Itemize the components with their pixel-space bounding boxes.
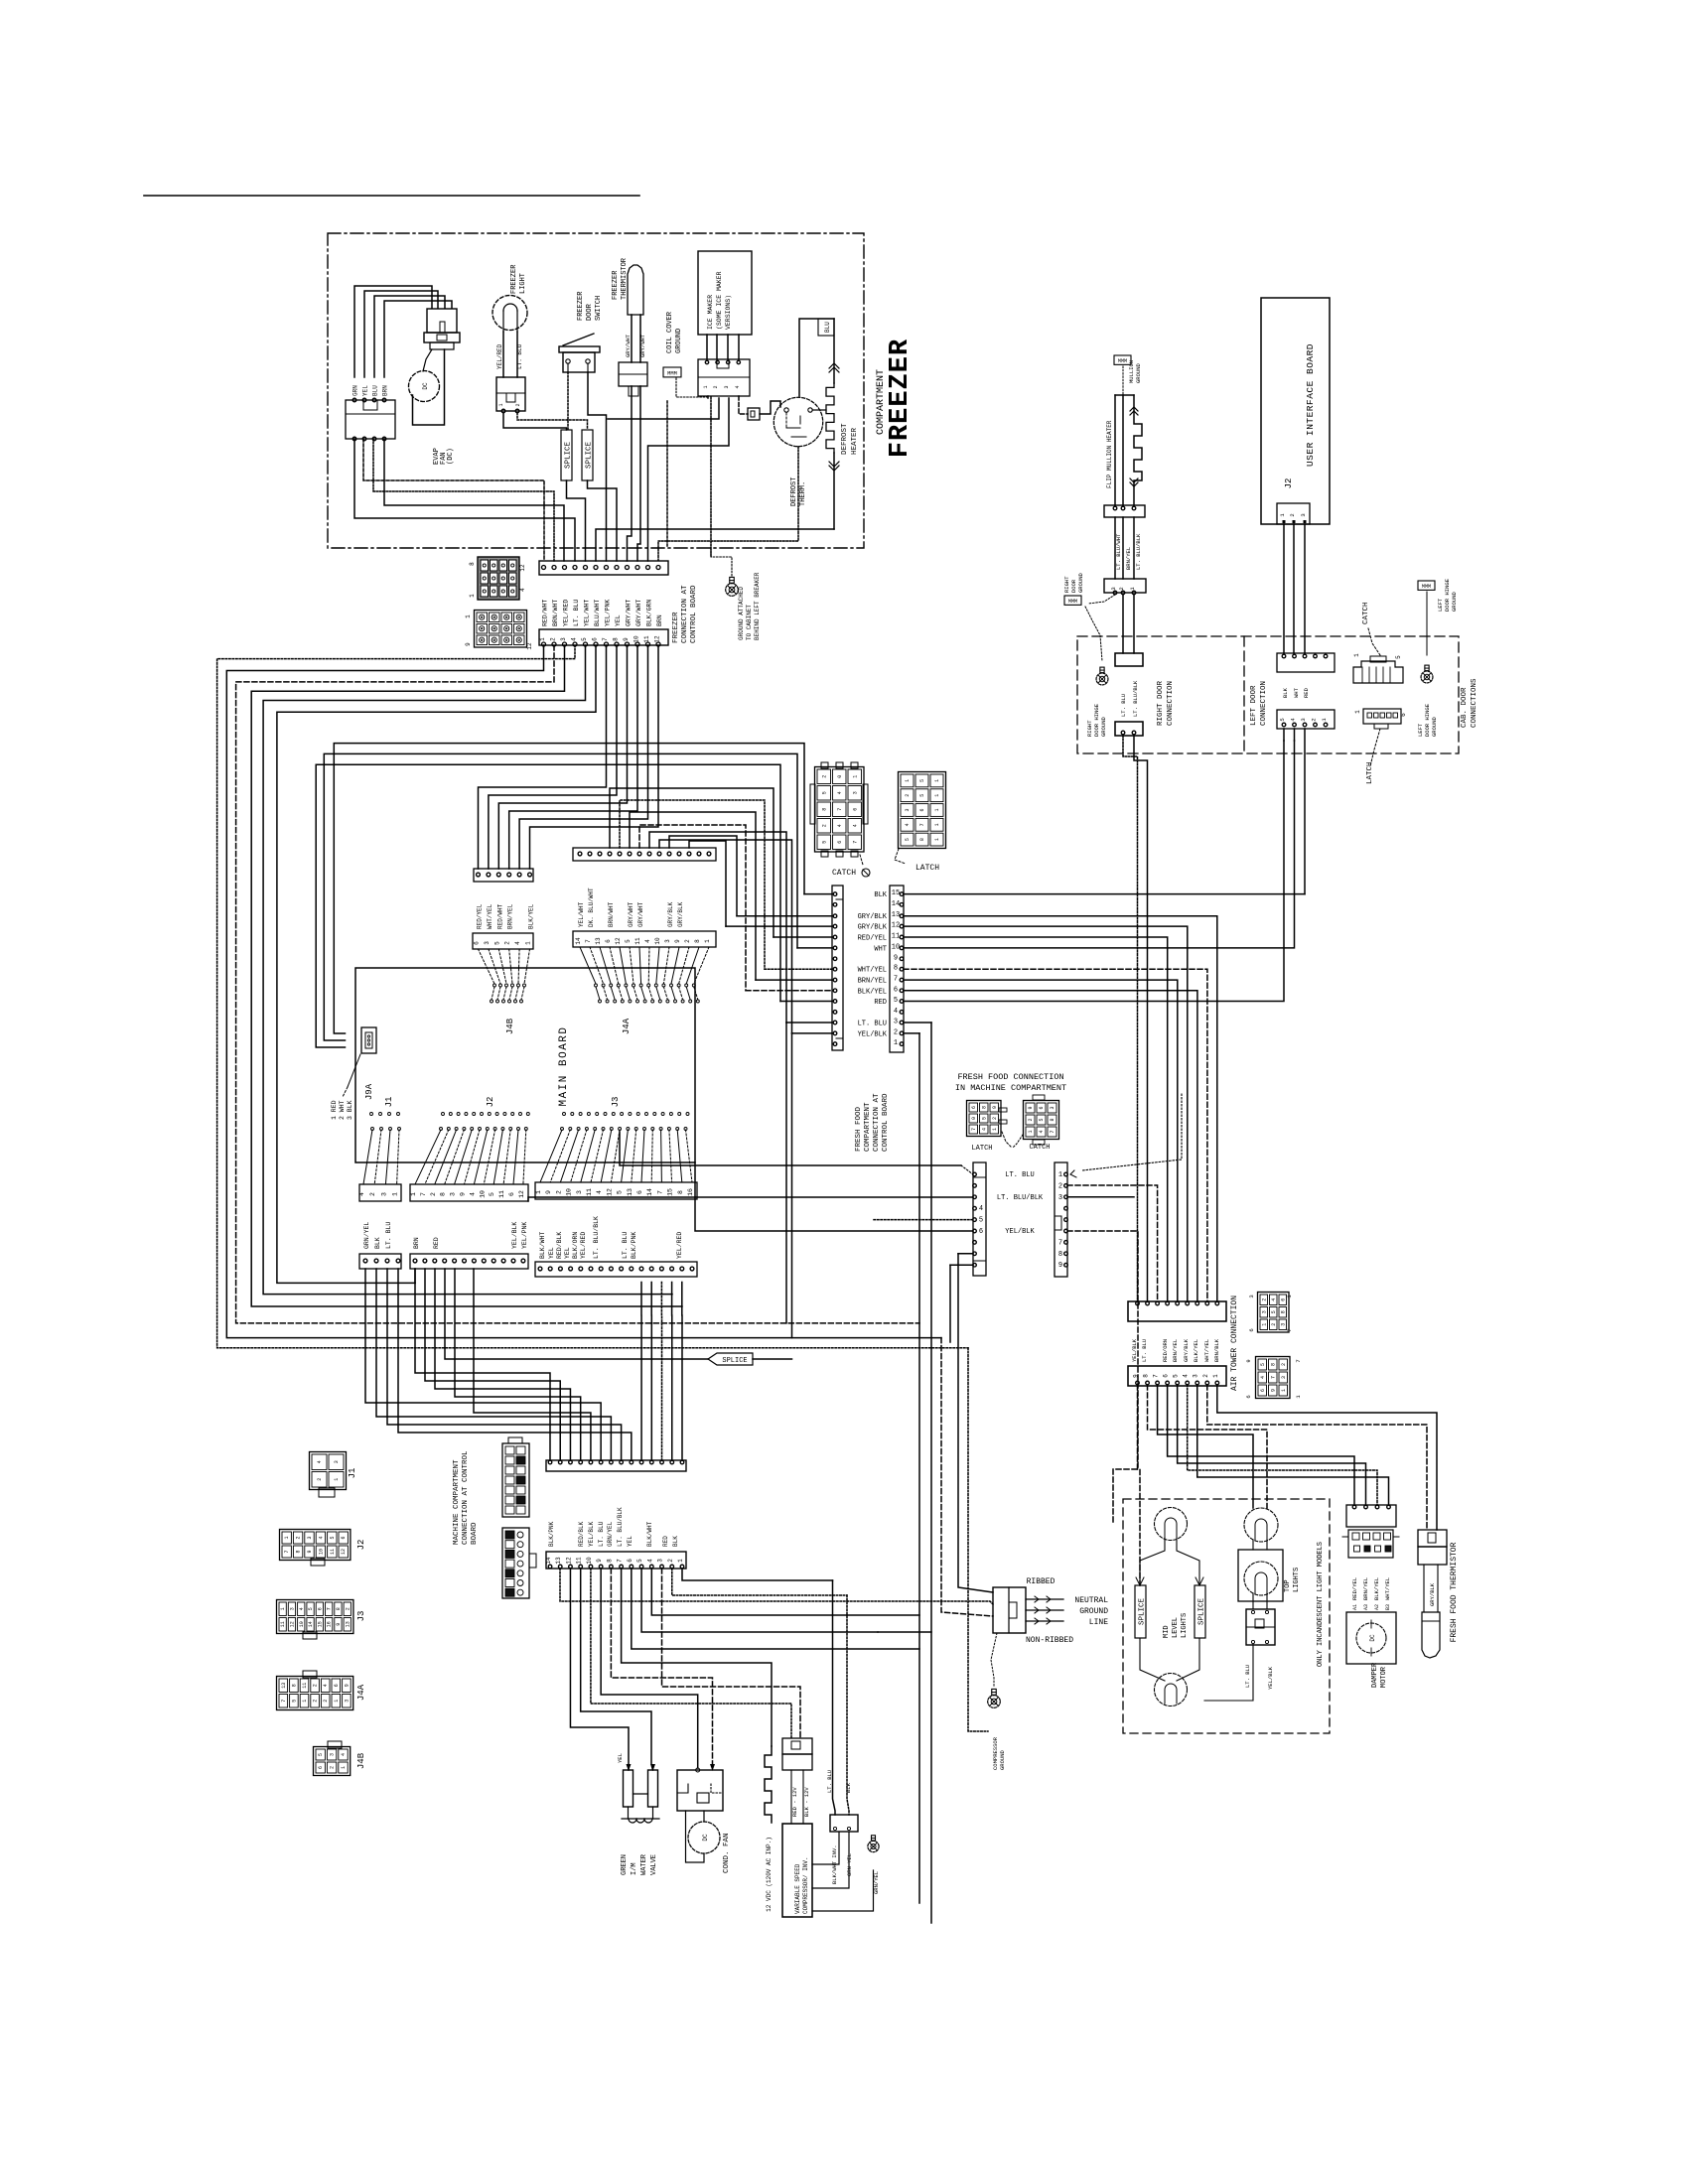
12-pin connector rear view (hatched) — [478, 557, 519, 600]
svg-text:15: 15 — [667, 1188, 674, 1196]
svg-text:4: 4 — [646, 1559, 653, 1563]
svg-text:3: 3 — [1248, 1295, 1255, 1297]
svg-text:YEL/BLK: YEL/BLK — [1267, 1666, 1274, 1690]
svg-text:9: 9 — [307, 1550, 313, 1553]
svg-text:9: 9 — [1245, 1359, 1252, 1362]
svg-text:1: 1 — [934, 779, 940, 782]
svg-text:LT. BLU/BLK: LT. BLU/BLK — [997, 1194, 1044, 1202]
svg-text:SPLICE: SPLICE — [565, 442, 573, 470]
svg-text:5: 5 — [617, 1190, 624, 1194]
fresh food compartment connector strip (numbered) — [890, 886, 904, 1052]
svg-text:BRN/YEL: BRN/YEL — [1125, 547, 1132, 570]
svg-text:YEL/RED: YEL/RED — [676, 1232, 683, 1259]
wires right door into door harness — [1123, 736, 1138, 1301]
svg-text:CATCH: CATCH — [1362, 602, 1370, 624]
svg-text:SPLICE: SPLICE — [1198, 1598, 1206, 1626]
svg-text:BLK: BLK — [374, 1237, 381, 1249]
svg-text:8: 8 — [894, 965, 898, 973]
svg-text:12: 12 — [654, 635, 661, 643]
svg-text:IN MACHINE COMPARTMENT: IN MACHINE COMPARTMENT — [955, 1083, 1066, 1093]
svg-text:5: 5 — [493, 941, 500, 945]
svg-text:7: 7 — [1270, 1376, 1276, 1379]
svg-text:4: 4 — [571, 637, 578, 641]
svg-text:BLK/PNK: BLK/PNK — [548, 1521, 555, 1547]
svg-text:7: 7 — [656, 1190, 663, 1194]
svg-text:DAMPER: DAMPER — [1371, 1662, 1379, 1688]
svg-text:1: 1 — [1212, 1374, 1219, 1378]
svg-text:GROUND: GROUND — [1077, 572, 1084, 593]
svg-text:YEL: YEL — [615, 614, 622, 626]
svg-text:3: 3 — [450, 1192, 457, 1196]
svg-text:9: 9 — [465, 642, 472, 646]
svg-text:3: 3 — [1110, 587, 1117, 590]
svg-text:FRESH FOOD: FRESH FOOD — [855, 1106, 863, 1152]
svg-text:2: 2 — [345, 1607, 351, 1610]
wires freezer strip pins 7-12 down to J4B connector — [479, 645, 607, 869]
svg-text:5: 5 — [636, 1559, 643, 1563]
damper motor connector strip — [1346, 1505, 1396, 1527]
svg-text:6: 6 — [627, 1559, 633, 1563]
svg-text:11: 11 — [892, 933, 900, 941]
wires into fresh food strip left (machine compartment) — [620, 1132, 961, 1165]
svg-text:BRN/YEL: BRN/YEL — [1362, 1577, 1369, 1600]
svg-text:9: 9 — [344, 1684, 350, 1687]
wires from door switch to splices — [567, 372, 569, 430]
svg-text:GROUND: GROUND — [1451, 591, 1458, 612]
svg-text:6: 6 — [979, 1228, 983, 1236]
svg-text:4: 4 — [323, 1684, 329, 1687]
svg-text:LIGHT: LIGHT — [519, 273, 527, 294]
svg-text:5: 5 — [919, 779, 925, 782]
connector J9A on main board — [361, 1027, 376, 1053]
svg-text:1: 1 — [677, 1559, 684, 1563]
svg-text:6: 6 — [1163, 1374, 1170, 1378]
svg-text:GRN YEL: GRN YEL — [846, 1853, 853, 1876]
svg-text:LEVEL: LEVEL — [1172, 1617, 1180, 1638]
svg-text:7: 7 — [617, 1559, 624, 1563]
svg-text:5: 5 — [979, 1217, 983, 1225]
evap fan motor (DC) — [409, 371, 440, 402]
damper motor — [1346, 1612, 1396, 1664]
svg-text:1: 1 — [334, 1700, 340, 1703]
wires rows 2 and 3 to long verticals — [904, 1022, 931, 1024]
svg-text:GRY/BLK: GRY/BLK — [667, 901, 674, 927]
svg-text:BLK/GRN: BLK/GRN — [646, 600, 653, 626]
svg-text:3: 3 — [576, 1190, 583, 1194]
right door lower connector — [1115, 722, 1143, 736]
J4B fanout to board pads — [479, 949, 495, 984]
svg-text:RED/BLK: RED/BLK — [556, 1232, 563, 1259]
ice maker leads — [706, 335, 708, 359]
svg-text:BLU: BLU — [824, 322, 831, 333]
svg-text:2: 2 — [330, 1766, 336, 1769]
svg-text:3: 3 — [905, 808, 911, 811]
fresh food thermistor connector — [1418, 1530, 1447, 1547]
svg-text:1: 1 — [1281, 1389, 1287, 1392]
svg-text:J2: J2 — [486, 1097, 495, 1108]
svg-text:5: 5 — [1260, 1363, 1266, 1366]
svg-text:8: 8 — [1050, 1118, 1055, 1121]
thermistor connector — [619, 362, 647, 386]
svg-text:MID: MID — [1163, 1625, 1171, 1638]
svg-text:J2: J2 — [1284, 478, 1294, 489]
svg-text:4: 4 — [981, 1128, 987, 1131]
svg-text:LEFT: LEFT — [1437, 598, 1444, 612]
svg-text:10: 10 — [633, 635, 640, 643]
svg-text:13: 13 — [892, 911, 900, 919]
svg-text:CATCH: CATCH — [832, 869, 856, 878]
svg-text:3: 3 — [724, 385, 730, 388]
svg-text:4: 4 — [469, 1192, 476, 1196]
svg-text:3: 3 — [289, 1607, 295, 1610]
svg-text:BLK/WHT INV.: BLK/WHT INV. — [831, 1844, 838, 1884]
svg-text:1: 1 — [280, 1607, 286, 1610]
svg-text:9: 9 — [894, 954, 898, 962]
wire bundle freezer strip down the left side (nested L wires) — [217, 645, 968, 1348]
water valve coil — [622, 1818, 659, 1820]
svg-text:6: 6 — [894, 986, 898, 994]
svg-text:DEFROST: DEFROST — [790, 478, 798, 506]
defrost thermostat — [774, 397, 822, 446]
svg-text:11: 11 — [280, 1621, 286, 1627]
top light bulb 2 — [1244, 1562, 1278, 1595]
svg-text:FRESH FOOD CONNECTION: FRESH FOOD CONNECTION — [957, 1072, 1063, 1082]
svg-text:11: 11 — [576, 1557, 583, 1565]
svg-text:2: 2 — [713, 385, 719, 388]
svg-text:7: 7 — [284, 1550, 290, 1553]
svg-text:5: 5 — [291, 1700, 297, 1703]
svg-text:4: 4 — [1271, 1298, 1277, 1301]
svg-text:RED: RED — [433, 1237, 440, 1249]
svg-text:6: 6 — [508, 1192, 515, 1196]
svg-text:MULLION: MULLION — [1128, 360, 1135, 383]
svg-text:DK. BLU/WHT: DK. BLU/WHT — [588, 887, 595, 927]
defrost heater resistor — [833, 319, 835, 383]
right door connector (cab side) — [1115, 653, 1143, 666]
freezer connection at control board - upper strip — [539, 561, 668, 575]
wires ice maker connector down — [710, 397, 712, 556]
svg-text:4: 4 — [644, 939, 651, 943]
svg-text:3: 3 — [852, 791, 858, 794]
svg-text:1: 1 — [1058, 1171, 1062, 1179]
svg-text:COIL COVER: COIL COVER — [666, 311, 674, 353]
svg-text:1: 1 — [539, 637, 546, 641]
svg-text:8: 8 — [981, 1106, 987, 1109]
svg-text:CONNECTIONS: CONNECTIONS — [1471, 678, 1478, 728]
svg-text:VARIABLE SPEED: VARIABLE SPEED — [794, 1863, 801, 1914]
thermal fuse — [748, 408, 760, 420]
svg-text:5: 5 — [919, 794, 925, 797]
svg-text:LIGHTS: LIGHTS — [1293, 1568, 1301, 1592]
svg-text:3: 3 — [380, 1192, 387, 1196]
svg-text:10: 10 — [318, 1549, 324, 1555]
svg-text:YEL/WHT: YEL/WHT — [578, 901, 585, 927]
J1 board pads and fanout — [370, 1113, 373, 1116]
svg-text:CONTROL BOARD: CONTROL BOARD — [690, 585, 698, 643]
svg-text:YEL/BLK: YEL/BLK — [858, 1030, 888, 1038]
9-pos connector front view (catch) — [1024, 1101, 1059, 1140]
svg-text:LT. BLU/BLK: LT. BLU/BLK — [617, 1507, 624, 1547]
svg-text:5: 5 — [581, 637, 588, 641]
svg-text:J4A: J4A — [622, 1018, 632, 1034]
svg-text:J4A: J4A — [356, 1684, 366, 1701]
svg-text:2: 2 — [894, 1028, 898, 1036]
svg-text:BRN: BRN — [382, 385, 389, 396]
svg-text:7: 7 — [585, 939, 592, 943]
top lights connector — [1246, 1609, 1275, 1645]
svg-text:16: 16 — [327, 1621, 333, 1627]
svg-text:BRN/YEL: BRN/YEL — [858, 978, 887, 986]
user interface board connector J2 — [1277, 503, 1310, 524]
svg-text:5: 5 — [330, 1536, 336, 1539]
wires J4A connector up to fresh food row feeders — [610, 788, 774, 937]
svg-text:RED/ORN: RED/ORN — [1162, 1339, 1169, 1362]
svg-text:RIGHT: RIGHT — [1063, 576, 1070, 593]
wires air tower to top lights — [1158, 1385, 1253, 1508]
9-pos connector rear view (latch) — [967, 1101, 1002, 1137]
svg-text:1: 1 — [852, 775, 858, 778]
svg-text:LT. BLU: LT. BLU — [858, 1021, 887, 1028]
svg-text:0: 0 — [837, 775, 843, 778]
svg-text:J4B: J4B — [356, 1752, 366, 1769]
arrow wires LT. BLU / BLK into 2-pin connector — [833, 1580, 836, 1815]
svg-text:1: 1 — [1261, 1323, 1267, 1326]
wires splices to strip — [567, 480, 586, 561]
svg-text:8: 8 — [613, 637, 620, 641]
svg-text:10: 10 — [566, 1188, 573, 1196]
svg-text:4: 4 — [519, 588, 526, 592]
svg-text:10: 10 — [654, 937, 661, 945]
svg-text:12: 12 — [526, 642, 533, 650]
svg-text:2 WHT: 2 WHT — [339, 1100, 346, 1120]
wire ice maker connector to thermal fuse — [739, 396, 748, 414]
svg-text:GROUND: GROUND — [1100, 716, 1107, 737]
svg-text:RIGHT: RIGHT — [1086, 720, 1093, 737]
svg-text:7: 7 — [1286, 1328, 1293, 1331]
svg-text:1: 1 — [934, 794, 940, 797]
freezer thermistor bulb — [628, 265, 643, 315]
svg-text:GRY/BLK: GRY/BLK — [677, 901, 684, 927]
svg-text:11: 11 — [302, 1683, 308, 1689]
svg-text:4: 4 — [837, 824, 843, 827]
svg-text:10: 10 — [892, 943, 900, 951]
wire air tower to fresh food thermistor — [1217, 1385, 1437, 1530]
svg-text:AIR TOWER CONNECTION: AIR TOWER CONNECTION — [1230, 1296, 1239, 1391]
svg-text:3: 3 — [1281, 1376, 1287, 1379]
svg-text:6: 6 — [1039, 1106, 1045, 1109]
J4A fanout to board pads — [580, 947, 596, 984]
freezer light leads — [502, 332, 504, 377]
svg-text:LATCH: LATCH — [915, 864, 939, 873]
svg-text:VALVE: VALVE — [650, 1854, 658, 1875]
svg-text:CATCH: CATCH — [1029, 1144, 1050, 1152]
svg-text:14: 14 — [646, 1188, 653, 1196]
svg-text:FREEZER: FREEZER — [672, 612, 680, 643]
svg-text:16: 16 — [687, 1188, 694, 1196]
machine compartment connector rear view (tall) — [502, 1443, 529, 1517]
damper motor plug rear view — [1348, 1530, 1393, 1558]
svg-text:BLU: BLU — [372, 385, 379, 396]
thermistor wires GRY/BLK — [1423, 1565, 1425, 1612]
svg-text:7: 7 — [1058, 1239, 1062, 1247]
svg-text:BLK: BLK — [874, 891, 887, 899]
svg-text:14: 14 — [575, 937, 582, 945]
svg-text:5: 5 — [625, 939, 632, 943]
splice (right) — [582, 430, 593, 480]
wire air tower to mid level lights — [1138, 1385, 1141, 1585]
svg-text:MOTOR: MOTOR — [1380, 1666, 1388, 1688]
svg-text:3: 3 — [664, 939, 671, 943]
ground screw (compressor ground) — [988, 1696, 1001, 1708]
splice (machine harness) — [708, 1353, 753, 1365]
svg-text:8: 8 — [440, 1192, 447, 1196]
svg-text:(DC): (DC) — [447, 448, 455, 465]
svg-text:8: 8 — [1143, 1374, 1150, 1378]
svg-text:CONNECTION AT CONTROL: CONNECTION AT CONTROL — [462, 1450, 470, 1545]
svg-text:DC: DC — [702, 1834, 709, 1842]
svg-text:BLK/WHT: BLK/WHT — [646, 1521, 653, 1547]
svg-text:BOARD: BOARD — [471, 1522, 479, 1545]
svg-text:MMM: MMM — [1068, 599, 1077, 605]
top lights return wire — [1204, 1644, 1253, 1701]
svg-text:YEL: YEL — [627, 1536, 633, 1547]
svg-text:1: 1 — [410, 1192, 417, 1196]
svg-text:2: 2 — [515, 403, 521, 406]
svg-text:11: 11 — [634, 937, 641, 945]
svg-text:4: 4 — [1183, 1374, 1190, 1378]
mullion ground — [1114, 355, 1131, 364]
connector J4B face view — [314, 1747, 351, 1776]
svg-text:FREEZER: FREEZER — [577, 291, 585, 321]
wire thermostat right contact to heater — [812, 409, 826, 411]
connector J1 numbered strip — [359, 1184, 401, 1201]
svg-text:3: 3 — [560, 637, 567, 641]
svg-text:1: 1 — [1279, 513, 1286, 517]
svg-text:YEL: YEL — [617, 1753, 624, 1763]
svg-text:3: 3 — [657, 1559, 664, 1563]
svg-text:7: 7 — [602, 637, 609, 641]
svg-text:2: 2 — [667, 1559, 674, 1563]
left door connector (top) — [1277, 653, 1335, 672]
svg-text:J3: J3 — [356, 1611, 366, 1622]
svg-text:7: 7 — [327, 1607, 333, 1610]
svg-text:1: 1 — [334, 1478, 340, 1481]
svg-text:2: 2 — [296, 1536, 302, 1539]
cab door connections boundary (dashed box) — [1077, 636, 1459, 753]
svg-text:BRN/BLK: BRN/BLK — [1213, 1338, 1220, 1362]
long feeders for rows 3 and 2 labels — [649, 832, 786, 1023]
svg-text:5: 5 — [1271, 1310, 1277, 1313]
svg-text:VERSIONS): VERSIONS) — [725, 295, 732, 330]
door catch connector — [1353, 661, 1403, 683]
svg-text:12: 12 — [518, 1190, 525, 1198]
svg-text:COMPRESSOR/ INV.: COMPRESSOR/ INV. — [802, 1856, 809, 1914]
svg-text:3: 3 — [344, 1700, 350, 1703]
svg-text:BLK/WHT: BLK/WHT — [539, 1232, 546, 1259]
main board outline — [355, 968, 695, 1162]
flip mullion heater — [1114, 395, 1116, 505]
svg-text:9: 9 — [336, 1623, 342, 1626]
svg-text:4: 4 — [341, 1753, 347, 1756]
compressor ground wire GRN/YEL with lug — [868, 1841, 879, 1851]
svg-text:J2: J2 — [356, 1540, 366, 1551]
connector J4A numbered strip — [573, 931, 716, 947]
svg-text:13: 13 — [345, 1621, 351, 1627]
svg-text:LT. BLU/WHT: LT. BLU/WHT — [1115, 533, 1122, 570]
door latch connector — [1363, 709, 1401, 724]
svg-text:1: 1 — [992, 1128, 998, 1131]
svg-text:7: 7 — [837, 808, 843, 811]
condenser fan motor — [688, 1822, 720, 1853]
svg-text:YEL/BLK: YEL/BLK — [1131, 1338, 1138, 1362]
svg-text:1: 1 — [704, 939, 711, 943]
svg-text:BLK/YEL: BLK/YEL — [528, 903, 535, 929]
connector J4A face view — [277, 1677, 353, 1710]
svg-text:YEL/PNK: YEL/PNK — [521, 1222, 528, 1249]
svg-text:WHT/YEL: WHT/YEL — [487, 903, 493, 929]
freezer light bulb — [492, 296, 527, 331]
svg-text:GROUND: GROUND — [1079, 1607, 1108, 1616]
svg-text:BLK/PNK: BLK/PNK — [631, 1232, 637, 1259]
svg-text:1: 1 — [934, 823, 940, 826]
svg-text:5: 5 — [1039, 1118, 1045, 1121]
svg-text:YEL/BLK: YEL/BLK — [511, 1222, 518, 1249]
svg-text:2: 2 — [1261, 1298, 1267, 1301]
svg-text:GRN/YEL: GRN/YEL — [607, 1521, 614, 1547]
svg-text:6: 6 — [1248, 1328, 1255, 1331]
svg-text:2: 2 — [684, 939, 691, 943]
svg-text:8: 8 — [677, 1190, 684, 1194]
svg-text:YEL: YEL — [564, 1247, 571, 1259]
svg-text:LEFT: LEFT — [1417, 723, 1424, 737]
svg-text:GRY/WHT: GRY/WHT — [639, 334, 646, 357]
heater return wire along box bottom — [596, 529, 834, 561]
svg-text:1: 1 — [469, 594, 476, 598]
svg-text:6: 6 — [341, 1536, 347, 1539]
svg-text:J1: J1 — [348, 1468, 357, 1479]
condenser fan connector — [677, 1770, 723, 1811]
svg-text:3: 3 — [1261, 1310, 1267, 1313]
svg-text:11: 11 — [498, 1190, 505, 1198]
machine compartment connection strip 1 — [546, 1460, 686, 1471]
connector J2 numbered strip — [410, 1184, 528, 1201]
connector J4A pin strip — [573, 848, 716, 861]
svg-text:7: 7 — [420, 1192, 427, 1196]
wire thermal fuse to defrost thermostat — [760, 401, 780, 414]
svg-text:3: 3 — [1050, 1106, 1055, 1109]
svg-text:5: 5 — [1173, 1374, 1180, 1378]
wires J3 lower strip straight down to machine strip — [640, 1283, 642, 1461]
left door hinge ground MMM — [1418, 581, 1435, 590]
connector J4B pin strip — [474, 869, 533, 882]
svg-text:J3: J3 — [611, 1097, 621, 1108]
connector J2 face view — [280, 1530, 351, 1561]
svg-text:SWITCH: SWITCH — [595, 296, 603, 321]
9-pos connector (air tower lower) — [1256, 1357, 1291, 1399]
svg-text:11: 11 — [330, 1549, 336, 1555]
svg-text:0: 0 — [971, 1117, 977, 1120]
svg-text:DOOR HINGE: DOOR HINGE — [1424, 703, 1431, 737]
svg-text:NON-RIBBED: NON-RIBBED — [1026, 1636, 1073, 1645]
svg-text:BLK/YEL: BLK/YEL — [1193, 1339, 1199, 1362]
svg-text:MACHINE COMPARTMENT: MACHINE COMPARTMENT — [453, 1459, 461, 1545]
machine compartment connection strip 2 (numbered) — [546, 1552, 686, 1569]
svg-text:CONNECTION AT: CONNECTION AT — [681, 585, 689, 643]
svg-text:1 RED: 1 RED — [331, 1100, 338, 1120]
svg-text:3: 3 — [1300, 718, 1307, 721]
title rule line — [144, 195, 639, 197]
svg-text:GRY/WHT: GRY/WHT — [626, 600, 633, 626]
